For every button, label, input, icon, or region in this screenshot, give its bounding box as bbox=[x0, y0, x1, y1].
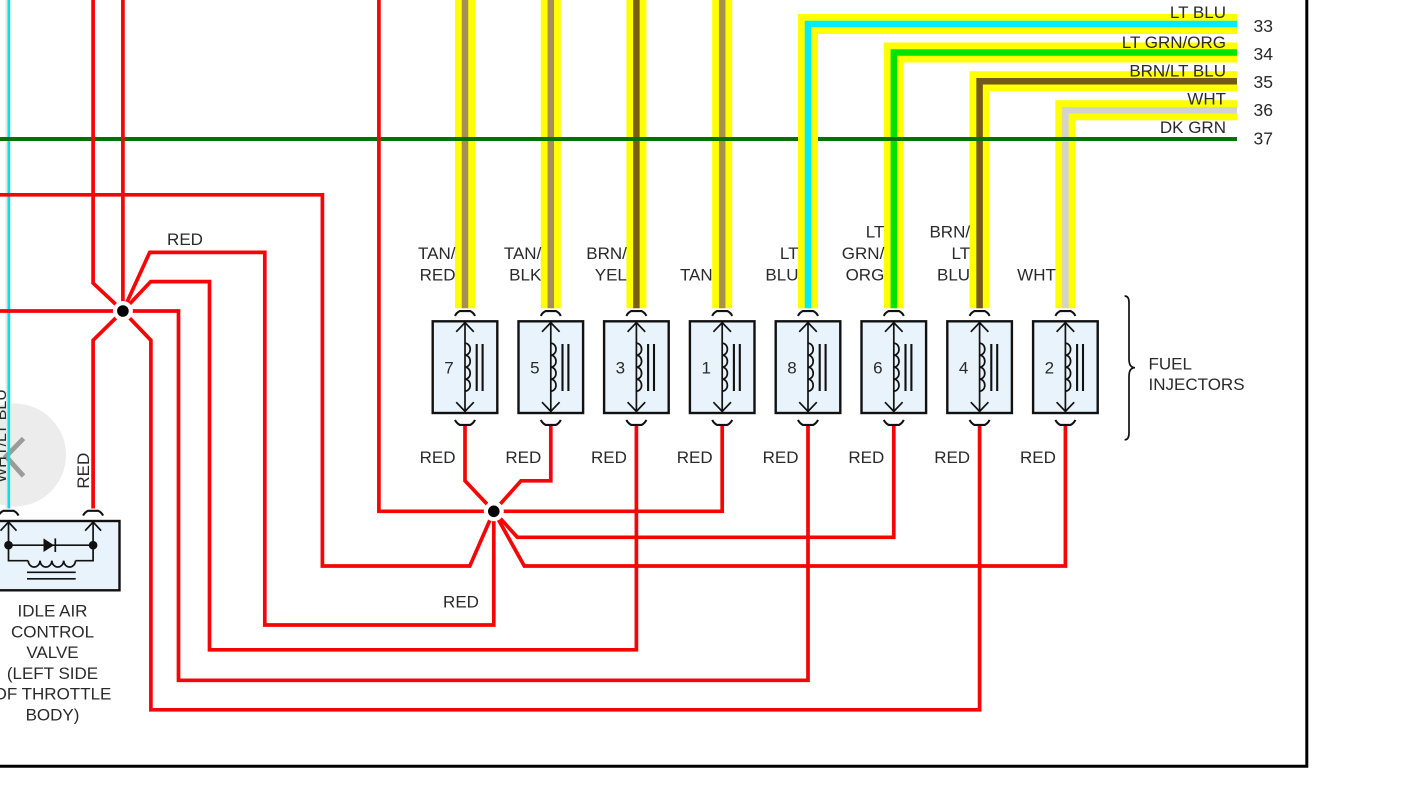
svg-text:LT: LT bbox=[780, 244, 799, 263]
svg-text:IDLE AIR: IDLE AIR bbox=[18, 602, 88, 621]
svg-text:8: 8 bbox=[787, 359, 796, 378]
svg-text:RED: RED bbox=[74, 453, 93, 489]
svg-text:LT: LT bbox=[952, 244, 971, 263]
svg-text:BODY): BODY) bbox=[26, 706, 80, 725]
svg-text:RED: RED bbox=[934, 448, 970, 467]
svg-text:33: 33 bbox=[1254, 16, 1273, 36]
svg-text:TAN/: TAN/ bbox=[504, 244, 542, 263]
svg-text:WHT: WHT bbox=[1017, 266, 1056, 285]
svg-text:LT GRN/ORG: LT GRN/ORG bbox=[1122, 33, 1226, 52]
svg-text:6: 6 bbox=[873, 359, 882, 378]
svg-text:ORG: ORG bbox=[846, 266, 885, 285]
svg-text:LT: LT bbox=[866, 223, 885, 242]
svg-text:CONTROL: CONTROL bbox=[11, 622, 94, 641]
svg-text:RED: RED bbox=[505, 448, 541, 467]
svg-text:RED: RED bbox=[420, 266, 456, 285]
svg-text:BRN/: BRN/ bbox=[586, 244, 627, 263]
svg-text:OF THROTTLE: OF THROTTLE bbox=[0, 685, 111, 704]
svg-text:37: 37 bbox=[1254, 128, 1273, 148]
svg-text:RED: RED bbox=[1020, 448, 1056, 467]
svg-text:BRN/: BRN/ bbox=[929, 223, 970, 242]
svg-text:RED: RED bbox=[443, 593, 479, 612]
svg-text:(LEFT SIDE: (LEFT SIDE bbox=[7, 664, 98, 683]
svg-text:WHT: WHT bbox=[1187, 90, 1226, 109]
svg-text:35: 35 bbox=[1254, 72, 1273, 92]
svg-text:RED: RED bbox=[848, 448, 884, 467]
svg-text:34: 34 bbox=[1254, 44, 1274, 64]
svg-text:BLU: BLU bbox=[765, 266, 798, 285]
svg-text:36: 36 bbox=[1254, 100, 1273, 120]
svg-text:DK GRN: DK GRN bbox=[1160, 118, 1226, 137]
svg-text:2: 2 bbox=[1045, 359, 1054, 378]
svg-text:7: 7 bbox=[444, 359, 453, 378]
svg-text:3: 3 bbox=[616, 359, 625, 378]
svg-text:FUEL: FUEL bbox=[1149, 355, 1192, 374]
svg-text:BLU: BLU bbox=[937, 266, 970, 285]
svg-text:RED: RED bbox=[763, 448, 799, 467]
svg-text:GRN/: GRN/ bbox=[842, 244, 885, 263]
svg-text:BRN/LT BLU: BRN/LT BLU bbox=[1129, 62, 1226, 81]
svg-text:4: 4 bbox=[959, 359, 968, 378]
svg-text:RED: RED bbox=[420, 448, 456, 467]
svg-text:WHT/LT BLU: WHT/LT BLU bbox=[0, 389, 10, 483]
svg-text:TAN/: TAN/ bbox=[418, 244, 456, 263]
svg-text:BLK: BLK bbox=[509, 266, 542, 285]
svg-text:INJECTORS: INJECTORS bbox=[1149, 375, 1245, 394]
svg-text:5: 5 bbox=[530, 359, 539, 378]
svg-text:RED: RED bbox=[167, 230, 203, 249]
svg-text:RED: RED bbox=[591, 448, 627, 467]
svg-text:VALVE: VALVE bbox=[26, 643, 78, 662]
svg-text:LT BLU: LT BLU bbox=[1170, 3, 1226, 22]
svg-text:YEL: YEL bbox=[595, 266, 627, 285]
svg-text:RED: RED bbox=[677, 448, 713, 467]
svg-text:1: 1 bbox=[701, 359, 710, 378]
svg-text:TAN: TAN bbox=[680, 266, 713, 285]
